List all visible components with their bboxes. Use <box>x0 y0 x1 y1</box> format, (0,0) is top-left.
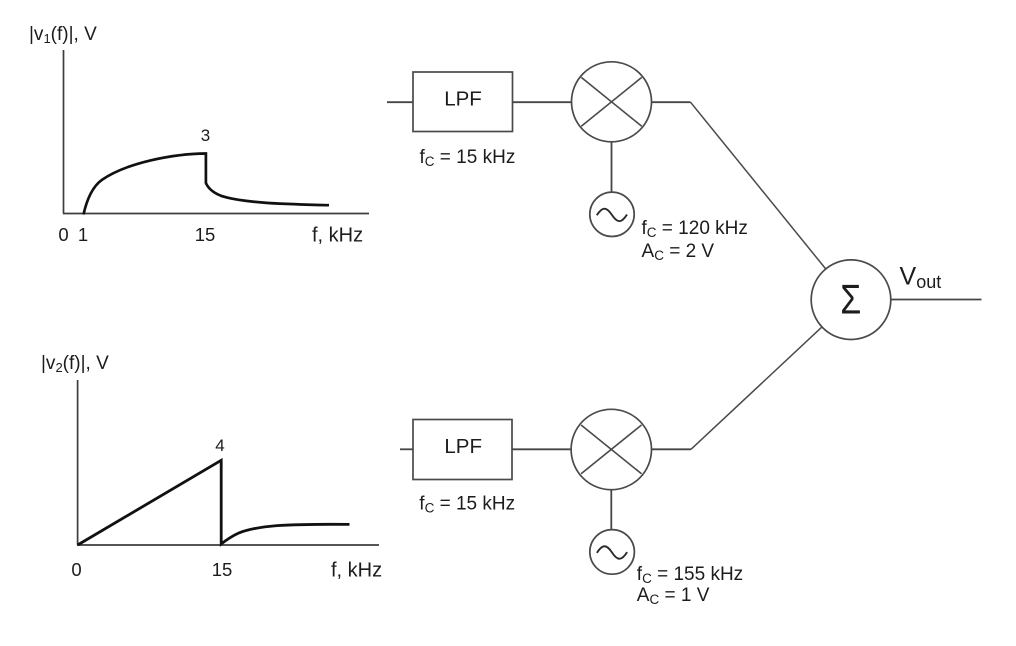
wire LPF2 to mixer2 <box>512 448 571 450</box>
mixer (multiplier) M2 circle <box>571 409 651 489</box>
svg-text:f, kHz: f, kHz <box>312 225 363 247</box>
svg-text:fC = 15 kHz: fC = 15 kHz <box>420 147 516 169</box>
wire mixer2 to summer diagonal <box>691 327 822 449</box>
svg-text:fC = 155 kHz: fC = 155 kHz <box>637 564 743 586</box>
mixer M1 X diagonal 1 <box>581 77 641 126</box>
svg-text:fC = 120 kHz: fC = 120 kHz <box>642 218 748 240</box>
graph 2 spectrum ramp v2 <box>78 460 350 545</box>
wire input v2 to LPF2 <box>400 448 413 450</box>
graph 1 spectrum curve v1 <box>84 154 330 215</box>
graph 2 x-axis <box>77 544 379 546</box>
low-pass filter LPF1 <box>413 72 513 132</box>
mixer M1 X diagonal 2 <box>581 77 641 126</box>
wire mixer2 to oscillator2 <box>610 490 612 530</box>
mixer (multiplier) M1 circle <box>572 62 652 142</box>
graph 1 y-axis <box>63 50 65 214</box>
svg-text:fC = 15 kHz: fC = 15 kHz <box>419 494 515 516</box>
wire input v1 to LPF1 <box>387 101 413 103</box>
svg-text:AC = 1 V: AC = 1 V <box>637 585 710 607</box>
svg-text:f, kHz: f, kHz <box>331 560 382 582</box>
wire mixer1 to oscillator1 <box>611 142 613 193</box>
svg-text:0: 0 <box>58 224 68 245</box>
graph 2 y-axis <box>77 380 79 545</box>
svg-text:1: 1 <box>78 224 88 245</box>
oscillator OSC1 circle <box>590 192 634 236</box>
oscillator OSC2 circle <box>590 530 635 575</box>
svg-text:|v2(f)|, V: |v2(f)|, V <box>41 353 109 375</box>
wire LPF1 to mixer1 <box>513 101 573 103</box>
svg-text:15: 15 <box>212 559 233 580</box>
oscillator OSC1 sine symbol <box>597 209 627 222</box>
svg-text:|v1(f)|, V: |v1(f)|, V <box>29 24 97 46</box>
wire mixer1 to summer diagonal <box>691 102 826 269</box>
summer SIGMA circle <box>811 260 891 340</box>
svg-text:LPF: LPF <box>444 435 482 458</box>
svg-text:LPF: LPF <box>444 88 482 111</box>
wire mixer2 output horizontal <box>652 448 692 450</box>
svg-text:15: 15 <box>195 224 216 245</box>
wire mixer1 output horizontal <box>652 101 691 103</box>
low-pass filter LPF2 <box>413 420 512 480</box>
svg-text:4: 4 <box>215 436 224 455</box>
output wire from summer <box>891 299 981 301</box>
svg-text:0: 0 <box>71 559 81 580</box>
svg-text:3: 3 <box>201 126 210 145</box>
oscillator OSC2 sine symbol <box>597 546 627 559</box>
svg-text:Σ: Σ <box>840 276 861 323</box>
mixer M2 X diagonal 2 <box>581 425 641 474</box>
graph 1 x-axis <box>63 213 369 215</box>
svg-text:AC = 2 V: AC = 2 V <box>642 241 715 263</box>
mixer M2 X diagonal 1 <box>581 425 641 474</box>
